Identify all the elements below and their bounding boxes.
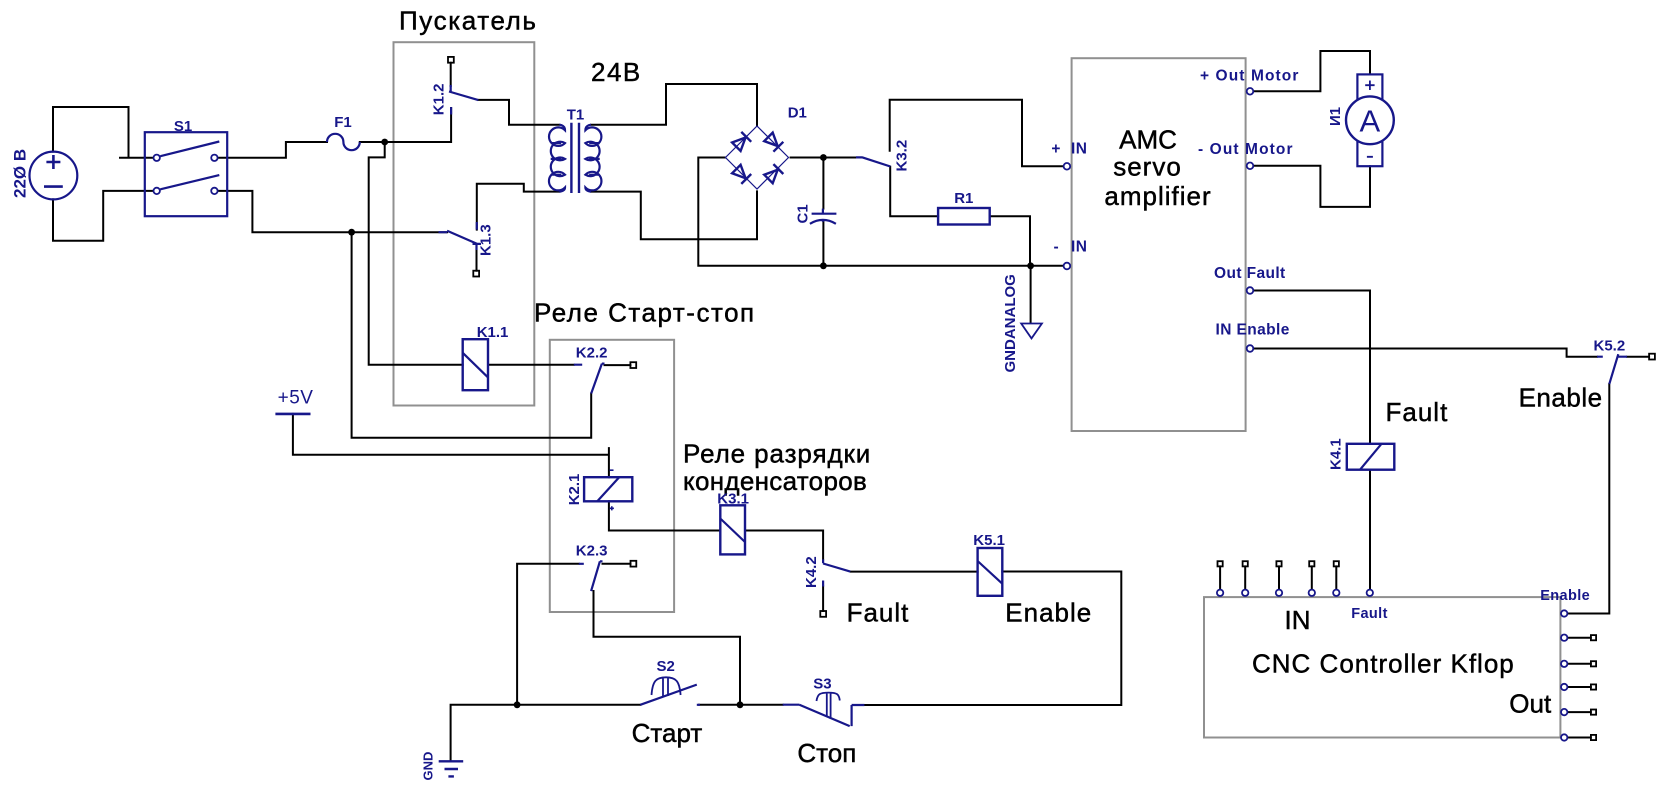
switch K1.2 blade <box>449 85 478 115</box>
terminal squares CNC IN <box>1218 561 1223 566</box>
svg-text:Enable: Enable <box>1540 588 1590 604</box>
wire transformer secondary bottom to bridge D1 bottom <box>591 191 757 239</box>
wire source bottom to S1 <box>53 191 153 241</box>
svg-text:R1: R1 <box>954 190 973 207</box>
wire K3.2 blade to R1 <box>890 167 938 216</box>
resistor R1 <box>938 208 990 225</box>
transformer T1 primary winding <box>549 125 565 192</box>
wire +5V to relay coil K2.1 <box>293 414 609 477</box>
svg-text:Fault: Fault <box>1351 606 1388 622</box>
svg-text:S3: S3 <box>813 675 831 692</box>
svg-text:A: A <box>1360 104 1381 139</box>
wire IN Enable pin to K5.2 <box>1253 349 1597 357</box>
wire neutral node B down to K2.2 riser <box>352 232 592 438</box>
wire K2.3 blade to S2 latch node <box>594 591 741 705</box>
svg-text:Enable: Enable <box>1519 383 1603 413</box>
switch K3.2 blade <box>856 157 890 166</box>
svg-text:K5.1: K5.1 <box>973 532 1005 549</box>
wire C1 top <box>822 158 824 209</box>
wire K5.2 fixed contact to terminal square <box>1627 356 1649 358</box>
svg-text:Старт: Старт <box>632 718 703 748</box>
wire transformer secondary top to bridge D1 <box>591 84 757 125</box>
svg-text:IN: IN <box>1071 141 1087 158</box>
junction C1 bottom <box>820 262 827 269</box>
svg-text:T1: T1 <box>567 107 585 124</box>
svg-text:Out Fault: Out Fault <box>1214 265 1286 282</box>
svg-text:22Ø В: 22Ø В <box>11 149 30 198</box>
pin circles S1 <box>154 155 160 161</box>
pin +IN <box>1064 163 1071 170</box>
switch K4.2 blade <box>823 559 850 586</box>
wire CNC top pin stems <box>1220 566 1336 589</box>
transformer T1 core <box>571 123 579 193</box>
svg-text:F1: F1 <box>334 114 352 131</box>
button S2 blade <box>640 685 700 705</box>
box CNC Controller Kflop U2 <box>1204 597 1560 737</box>
relay coil K5.1 <box>978 548 1003 596</box>
svg-text:- Out Motor: - Out Motor <box>1198 141 1294 158</box>
wire bridge left corner to minus rail <box>698 158 1063 266</box>
power +5V bar <box>275 413 310 416</box>
junction node C S2-S3 <box>737 701 744 708</box>
switch K2.2 blade <box>574 364 605 394</box>
svg-text:И1: И1 <box>1327 107 1344 126</box>
svg-text:Реле разрядки: Реле разрядки <box>683 439 871 469</box>
wire K1.1 to K2.2 hinge <box>488 364 574 366</box>
transformer T1 secondary winding <box>585 125 601 192</box>
pin circles CNC Out <box>1561 610 1567 616</box>
svg-text:K2.3: K2.3 <box>576 543 608 560</box>
fuse F1 <box>327 134 360 150</box>
diode D1 bottom-left <box>731 164 751 184</box>
wire F1 to node A and K1.2 contact <box>360 63 451 142</box>
button S3 blade <box>783 705 865 726</box>
motor M1 <box>1357 74 1382 166</box>
junction R1 minus rail <box>1027 262 1034 269</box>
svg-text:Enable: Enable <box>1005 598 1092 628</box>
wire bridge right corner to C1 node and K3.2 <box>791 157 863 159</box>
bridge rectifier D1 diamond <box>726 126 789 189</box>
svg-text:CNC Controller Kflop: CNC Controller Kflop <box>1252 649 1515 679</box>
ground GNDANALOG triangle <box>1021 324 1042 339</box>
svg-text:servo: servo <box>1113 152 1182 182</box>
wire K1.2 blade to transformer primary top <box>478 100 559 125</box>
wire CNC right pin stubs <box>1568 638 1591 738</box>
switch K1.3 blade <box>439 222 482 250</box>
button S2 plunger <box>652 677 681 697</box>
pin Out Fault <box>1247 287 1254 294</box>
wire K4.1 to CNC Fault pin <box>1369 470 1371 590</box>
junction node A <box>381 139 388 146</box>
svg-text:+ Out Motor: + Out Motor <box>1200 68 1300 85</box>
wire K5.1 to S3 return (Enable loop) <box>864 572 1121 706</box>
terminal squares CNC Out <box>1591 635 1596 640</box>
wire C1 bottom <box>822 222 824 266</box>
ground GND <box>439 761 464 776</box>
switch K2.3 blade <box>579 561 603 591</box>
svg-text:Out: Out <box>1509 689 1552 719</box>
svg-text:K2.1: K2.1 <box>566 474 583 506</box>
wire K5.2 blade to CNC Enable pin <box>1568 384 1610 614</box>
pin -Out Motor <box>1247 163 1254 170</box>
svg-text:K1.2: K1.2 <box>431 84 448 116</box>
svg-text:K2.2: K2.2 <box>576 345 608 362</box>
svg-text:AMC: AMC <box>1119 125 1177 155</box>
svg-text:S1: S1 <box>174 118 192 135</box>
svg-text:K3.2: K3.2 <box>894 140 911 172</box>
svg-text:K1.1: K1.1 <box>477 324 509 341</box>
svg-text:C1: C1 <box>795 204 812 223</box>
terminal square K1.2 <box>448 57 454 63</box>
svg-text:Fault: Fault <box>847 598 910 628</box>
svg-text:GNDANALOG: GNDANALOG <box>1002 274 1019 372</box>
terminal square K2.3 <box>631 561 637 567</box>
pin -IN <box>1064 263 1071 270</box>
box Реле Старт-стоп <box>550 340 674 612</box>
switch K5.2 blade <box>1597 354 1627 384</box>
svg-text:IN: IN <box>1071 238 1087 255</box>
svg-text:+5V: +5V <box>278 388 314 409</box>
wire GND rail to S2 <box>451 705 641 760</box>
terminal square K1.3 <box>473 271 479 277</box>
pin circles CNC IN <box>1217 590 1223 596</box>
switch S1 blade top <box>160 142 219 157</box>
wire K2.3 fixed contact to square <box>603 563 631 565</box>
wire K4.2 blade to relay coil K5.1 <box>851 571 978 573</box>
capacitor C1 <box>810 209 837 224</box>
svg-text:amplifier: amplifier <box>1104 181 1211 211</box>
box Пускатель <box>394 42 535 405</box>
svg-text:Стоп: Стоп <box>797 738 856 768</box>
svg-text:D1: D1 <box>788 104 807 121</box>
wire +Out Motor pin to motor M1 top <box>1253 51 1370 91</box>
wire node C to S3 <box>740 704 783 706</box>
wire source top to S1 <box>53 107 153 158</box>
svg-text:K4.1: K4.1 <box>1328 438 1345 470</box>
switch S1 box <box>145 132 227 216</box>
svg-text:+: + <box>1051 141 1060 158</box>
diode D1 bottom-right <box>764 164 784 184</box>
wire S2 to node C <box>699 704 740 706</box>
terminal square K2.2 <box>630 362 636 368</box>
switch S1 blade bottom <box>160 175 219 189</box>
button S3 plunger <box>817 693 840 719</box>
pin +Out Motor <box>1247 88 1254 95</box>
diode D1 top-left <box>731 132 751 152</box>
wire K1.3 blade to terminal square <box>476 245 478 271</box>
wire S1 bottom to node B and K1.3 <box>218 191 447 232</box>
junction GND rail K2.3 <box>514 701 521 708</box>
svg-text:GND: GND <box>421 752 436 781</box>
svg-text:-: - <box>1054 238 1060 255</box>
svg-text:K5.2: K5.2 <box>1594 337 1626 354</box>
terminal square K5.2 <box>1649 354 1655 360</box>
svg-text:K3.1: K3.1 <box>717 490 749 507</box>
wire K3.1 to switch K4.2 <box>745 531 823 560</box>
wire K2.1 to relay coil K3.1 <box>609 501 720 530</box>
junction node B <box>348 229 355 236</box>
wire -Out Motor pin to motor M1 bottom <box>1253 166 1370 207</box>
pin IN Enable <box>1247 345 1254 352</box>
svg-text:Реле Старт-стоп: Реле Старт-стоп <box>534 298 756 328</box>
wire node A down to relay coil K1.1 <box>369 142 463 365</box>
wire S1 to fuse F1 <box>218 142 327 158</box>
svg-text:K1.3: K1.3 <box>478 224 495 256</box>
svg-text:Пускатель: Пускатель <box>399 6 538 36</box>
relay coil K4.1 <box>1347 444 1395 470</box>
relay coil K2.1 <box>584 477 632 501</box>
svg-text:конденсаторов: конденсаторов <box>683 466 867 496</box>
ammeter circle M1 <box>1346 96 1394 144</box>
wire R1 to minus rail <box>990 216 1030 266</box>
svg-text:K4.2: K4.2 <box>803 556 820 588</box>
svg-text:24В: 24В <box>591 57 642 87</box>
wire K2.3 riser to GND rail <box>517 564 579 705</box>
source 220V circle <box>30 152 78 200</box>
wire Out Fault pin to relay K4.1 <box>1253 291 1370 444</box>
svg-text:IN: IN <box>1285 605 1311 635</box>
relay coil K1.1 <box>463 339 488 390</box>
junction C1 top <box>820 154 827 161</box>
diode D1 top-right <box>764 132 784 152</box>
wire GNDANALOG drop <box>1030 266 1032 323</box>
wire K3.2 upper contact to +IN pin <box>890 100 1064 167</box>
terminal square K4.2 <box>820 611 826 617</box>
wire K4.2 stub to terminal square <box>822 587 824 612</box>
svg-text:S2: S2 <box>657 658 675 675</box>
box AMC servo amplifier U1 <box>1072 58 1246 431</box>
wire K2.2 fixed contact to square <box>605 364 631 366</box>
svg-text:IN Enable: IN Enable <box>1216 322 1290 339</box>
relay coil K3.1 <box>720 505 745 554</box>
wire transformer primary bottom to K1.3 contact <box>477 184 560 230</box>
svg-text:Fault: Fault <box>1386 397 1449 427</box>
